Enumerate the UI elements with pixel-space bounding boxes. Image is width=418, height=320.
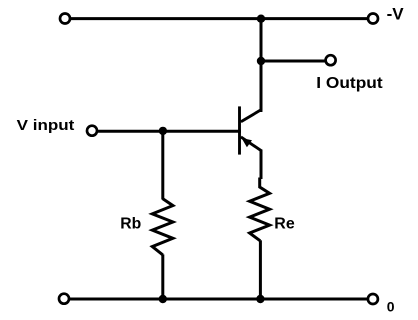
svg-text:Rb: Rb bbox=[120, 216, 141, 233]
node junction top rail / collector bbox=[257, 15, 265, 23]
svg-text:Re: Re bbox=[274, 216, 295, 233]
node junction I Output tap bbox=[257, 57, 265, 65]
terminal 0 bbox=[368, 294, 378, 304]
node junction base / Rb bbox=[159, 127, 167, 135]
node junction bottom rail / Re bbox=[256, 295, 264, 303]
wire emitter vertical bbox=[260, 150, 263, 180]
svg-text:I Output: I Output bbox=[316, 75, 383, 92]
wire Re to bottom rail bbox=[259, 240, 262, 299]
terminal I Output bbox=[326, 55, 336, 65]
terminal V input bbox=[87, 126, 97, 136]
resistor Re bbox=[250, 178, 270, 241]
wire I Output tap bbox=[261, 60, 326, 63]
wire collector vertical bbox=[260, 19, 263, 111]
wire Rb branch upper bbox=[161, 131, 164, 199]
svg-text:V input: V input bbox=[17, 117, 75, 134]
svg-text:0: 0 bbox=[387, 298, 395, 314]
wire V input to base bbox=[92, 130, 241, 133]
wire Rb branch lower bbox=[161, 254, 164, 299]
wire top supply rail bbox=[65, 17, 373, 20]
resistor Rb bbox=[152, 199, 173, 255]
transistor Q1 bbox=[240, 106, 262, 154]
terminal -V bbox=[368, 14, 378, 24]
node junction bottom rail / Rb bbox=[159, 295, 167, 303]
terminal top left bbox=[60, 14, 70, 24]
svg-text:-V: -V bbox=[387, 4, 405, 23]
terminal bottom left bbox=[59, 294, 69, 304]
wire bottom 0V rail bbox=[64, 298, 373, 301]
